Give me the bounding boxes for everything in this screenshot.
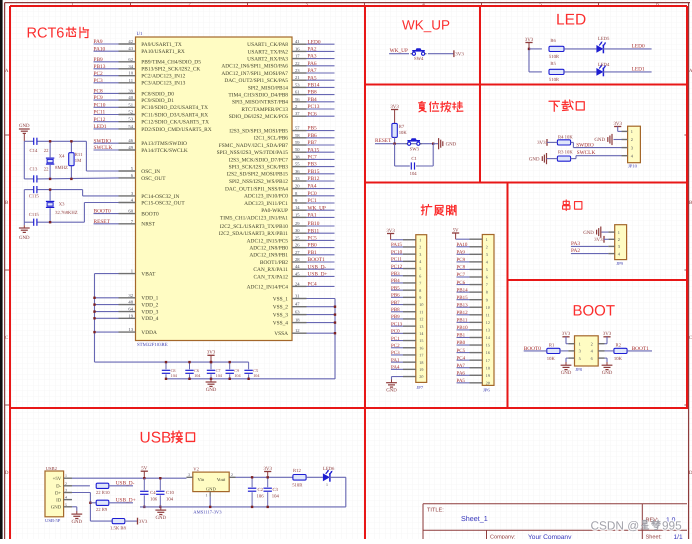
svg-text:PB11: PB11 [457, 318, 468, 324]
pin 13 VDDA left [119, 327, 157, 336]
svg-text:44: 44 [295, 264, 300, 269]
svg-text:57: 57 [295, 126, 300, 131]
svg-text:PC5: PC5 [457, 348, 466, 354]
wire osc_in jog [85, 141, 87, 171]
wire R5 to LED4 [564, 71, 596, 73]
svg-text:PC12: PC12 [391, 264, 403, 270]
svg-text:3V3: 3V3 [139, 519, 148, 525]
svg-text:61: 61 [295, 90, 300, 95]
svg-text:STM32F103RE: STM32F103RE [137, 342, 168, 348]
net label RESET [375, 138, 395, 144]
watermark CSDN [591, 518, 683, 532]
svg-text:PC7: PC7 [457, 272, 466, 278]
svg-text:SW3: SW3 [410, 147, 420, 153]
svg-text:PA14/JTCK/SWCLK: PA14/JTCK/SWCLK [141, 148, 188, 154]
title block REV cell [646, 517, 676, 524]
svg-text:104: 104 [253, 373, 260, 378]
svg-text:CSDN @: CSDN @ [591, 518, 640, 532]
svg-text:27: 27 [295, 250, 300, 255]
pin 16 USART2_TX/PA2 right [247, 46, 334, 55]
section title expansion pins [421, 204, 432, 215]
svg-text:PC14-OSC32_IN: PC14-OSC32_IN [141, 194, 179, 200]
svg-text:PD2/SDIO_CMD/USART5_RX: PD2/SDIO_CMD/USART5_RX [141, 127, 211, 133]
pin 53 PC12/SDIO_CK/USART5_TX left [94, 117, 210, 126]
svg-text:OSC_OUT: OSC_OUT [141, 176, 166, 182]
wire to R9 [90, 502, 96, 504]
svg-text:C14: C14 [30, 148, 38, 154]
svg-text:37: 37 [295, 111, 300, 116]
capacitor C5 104 [244, 362, 260, 380]
svg-text:R12: R12 [293, 468, 301, 474]
svg-text:PA0-WKUP: PA0-WKUP [261, 208, 288, 214]
svg-text:30: 30 [295, 228, 300, 233]
ground symbol usb rail [155, 507, 166, 521]
JP7 pin 13 [391, 321, 423, 328]
JP7 pin 5 [391, 264, 421, 271]
svg-text:3V3: 3V3 [537, 140, 546, 146]
svg-text:58: 58 [295, 133, 300, 138]
svg-text:X4: X4 [59, 154, 65, 160]
svg-text:JP9: JP9 [616, 261, 623, 266]
svg-text:DAC_OUT1/SPI1_NSS/PA4: DAC_OUT1/SPI1_NSS/PA4 [225, 187, 288, 193]
svg-text:PC1: PC1 [391, 336, 400, 342]
svg-text:PC10: PC10 [391, 249, 403, 255]
svg-text:10K: 10K [399, 130, 408, 136]
pin 3 PC14-OSC32_IN left [119, 191, 180, 200]
svg-text:R1: R1 [549, 343, 555, 349]
svg-text:6: 6 [419, 273, 421, 278]
svg-text:PB7: PB7 [391, 300, 400, 306]
svg-text:20: 20 [295, 184, 300, 189]
svg-text:18: 18 [419, 360, 423, 365]
resistor R9 22 [96, 500, 109, 513]
net label PA2 and wire [571, 248, 609, 254]
svg-text:BOOT1: BOOT1 [308, 257, 326, 263]
svg-text:31: 31 [295, 294, 300, 299]
section title download port [549, 101, 560, 111]
pin 6 OSC_OUT left [119, 173, 167, 182]
ground symbol bottom of crystal X3 [19, 225, 30, 241]
net label USB_D- and wire [109, 481, 135, 487]
JP6 pin 18 [457, 363, 490, 370]
JP6 pin 19 [457, 370, 490, 377]
JP7 pin 14 [391, 329, 423, 336]
svg-text:106: 106 [257, 494, 265, 500]
svg-text:Your Company: Your Company [528, 534, 572, 539]
JP6 pin 1 [470, 237, 488, 242]
svg-text:17: 17 [295, 54, 300, 59]
pin 7 NRST left [94, 219, 156, 228]
svg-text:GND: GND [155, 515, 166, 521]
svg-text:1: 1 [486, 237, 488, 242]
svg-text:JP8: JP8 [575, 367, 582, 372]
resistor R10 22 [96, 483, 110, 496]
op IC U1 STM32F103RE body [136, 37, 293, 341]
red section divider lines [10, 5, 687, 7]
pin 22 ADC12_IN6/SPI1_MISO/PA6 right [221, 61, 334, 70]
svg-text:104: 104 [234, 373, 241, 378]
svg-text:SW4: SW4 [414, 56, 424, 62]
USB2 pin 5 GND [51, 503, 72, 511]
pin 58 I2C1_SCL/PB6 right [254, 133, 335, 142]
JP7 pin 8 [391, 285, 421, 292]
power symbol 3V3 jp7 [386, 228, 403, 240]
ground symbol jp7 pin20 [386, 377, 403, 394]
switch SW3 [406, 138, 422, 152]
svg-text:PA5: PA5 [308, 75, 317, 81]
svg-text:7: 7 [486, 282, 488, 287]
svg-text:LED4: LED4 [598, 62, 610, 68]
pin 2 RTC/TAMPER/PC13 right [241, 104, 334, 113]
connector JP8 [568, 336, 604, 372]
svg-text:GND: GND [206, 387, 217, 393]
svg-text:LED0: LED0 [632, 43, 645, 49]
svg-text:15: 15 [295, 212, 300, 217]
ground symbol boot left [561, 358, 572, 376]
svg-text:PC3: PC3 [391, 350, 400, 356]
svg-text:USB2: USB2 [46, 466, 58, 471]
JP6 pin 16 [457, 348, 490, 355]
capacitor C2 106 [248, 476, 264, 508]
svg-text:ADC12_IN9/PB1: ADC12_IN9/PB1 [249, 253, 288, 259]
svg-text:D+: D+ [55, 490, 61, 496]
svg-text:LED5: LED5 [598, 36, 610, 42]
svg-text:PC7: PC7 [308, 155, 318, 161]
svg-text:8: 8 [419, 288, 421, 293]
svg-text:GND: GND [594, 137, 605, 143]
pin 54 PD2/SDIO_CMD/USART5_RX left [94, 124, 212, 133]
svg-text:USART2_TX/PA2: USART2_TX/PA2 [247, 49, 288, 55]
svg-text:RTC/TAMPER/PC13: RTC/TAMPER/PC13 [241, 107, 288, 113]
ground symbol below caps [210, 379, 212, 382]
wire to GND reset [433, 143, 438, 145]
wire VBAT row [95, 273, 119, 275]
svg-text:104: 104 [216, 373, 223, 378]
wire crystal1 top row [24, 140, 33, 142]
svg-text:C115: C115 [29, 212, 40, 218]
power symbol 5V usb [141, 466, 148, 480]
power symbol 3V3 jp9 pin2 [594, 236, 608, 243]
JP7 pin 2 [391, 242, 421, 249]
svg-text:USB_D+: USB_D+ [116, 498, 136, 504]
svg-text:104: 104 [171, 373, 178, 378]
svg-text:VSSA: VSSA [274, 331, 288, 337]
svg-text:PB15: PB15 [457, 295, 469, 301]
ground symbol boot right [602, 358, 613, 376]
JP7 pin 10 [391, 300, 423, 307]
svg-text:ADC12_IN6/SPI1_MISO/PA6: ADC12_IN6/SPI1_MISO/PA6 [221, 64, 288, 70]
wire crystal2 left vertical [23, 190, 25, 226]
svg-text:PB4: PB4 [391, 278, 400, 284]
pin 38 I2S3_MCK/SDIO_D7/PC7 right [229, 154, 335, 163]
JP7 pin 11 [391, 307, 423, 314]
svg-text:7: 7 [419, 281, 421, 286]
svg-text:Sheet_1: Sheet_1 [461, 514, 488, 523]
svg-text:ADC123_IN11/PC1: ADC123_IN11/PC1 [244, 201, 288, 207]
svg-text:62: 62 [128, 57, 133, 62]
svg-text:SWCLK: SWCLK [577, 150, 596, 156]
svg-text:ADC12_IN15/PC5: ADC12_IN15/PC5 [247, 238, 289, 244]
resistor R4 10K [557, 134, 573, 147]
svg-text:17: 17 [419, 353, 423, 358]
svg-text:PA10/USART1_RX: PA10/USART1_RX [141, 49, 185, 55]
svg-text:PC2: PC2 [391, 343, 400, 349]
svg-text:2: 2 [231, 473, 233, 477]
wire VDD row [95, 317, 119, 319]
svg-text:PC4: PC4 [457, 355, 466, 361]
connector JP9 [608, 225, 626, 266]
svg-text:I2C1_SCL/PB6: I2C1_SCL/PB6 [254, 136, 288, 142]
svg-text:SPI2_NSS/I2S2_WS/PB12: SPI2_NSS/I2S2_WS/PB12 [229, 179, 288, 185]
pin 21 DAC_OUT2/SPI1_SCK/PA5 right [224, 75, 334, 84]
svg-text:1M: 1M [75, 158, 82, 164]
svg-text:10K: 10K [547, 356, 556, 362]
wire D+ jog down [72, 493, 92, 522]
svg-text:3: 3 [618, 244, 620, 249]
svg-text:2: 2 [591, 341, 593, 346]
svg-text:TIM4_CH3/SDIO_D4/PB8: TIM4_CH3/SDIO_D4/PB8 [228, 93, 288, 99]
pin 36 I2S2_SD/SPI2_MOSI/PB15 right [227, 169, 335, 178]
svg-text:995: 995 [662, 518, 682, 532]
pin 31 VSS_1 right [273, 294, 335, 303]
svg-text:2: 2 [65, 482, 67, 486]
resistor R8 1.5K [110, 519, 127, 532]
svg-text:A: A [5, 68, 9, 74]
svg-text:PB14: PB14 [457, 287, 469, 293]
svg-text:15: 15 [486, 343, 490, 348]
svg-text:PC8/SDIO_D0: PC8/SDIO_D0 [141, 91, 174, 97]
ground symbol jp9 pin1 [583, 227, 608, 238]
resistor R12 510R [292, 468, 306, 489]
svg-text:PA10: PA10 [94, 46, 106, 52]
svg-text:60: 60 [128, 209, 133, 214]
net label SWDIO and wire [573, 143, 621, 149]
svg-text:I2C2_SCL/USART3_TX/PB10: I2C2_SCL/USART3_TX/PB10 [220, 224, 289, 230]
svg-text:PA9/USART1_TX: PA9/USART1_TX [141, 42, 182, 48]
svg-text:LED1: LED1 [94, 124, 107, 130]
svg-text:4: 4 [419, 259, 421, 264]
wire R7 to node [394, 137, 396, 143]
capacitor C14 22 [30, 138, 50, 154]
svg-text:38: 38 [295, 154, 300, 159]
pin 37 SDIO_D6/I2S2_MCK/PC6 right [229, 111, 335, 120]
JP7 pin 19 [391, 365, 423, 372]
pin 18 VSS_4 right [273, 318, 336, 327]
title block Sheet cell [646, 534, 683, 541]
svg-text:1: 1 [419, 237, 421, 242]
svg-text:2: 2 [631, 137, 633, 142]
regulator V2 AMS1117-3V3 [187, 466, 236, 514]
USB2 pin 3 D+ [55, 489, 72, 497]
pin 29 I2C2_SCL/USART3_TX/PB10 right [220, 221, 335, 230]
svg-text:41: 41 [295, 39, 300, 44]
capacitor C7 104 [207, 361, 223, 380]
pin 45 CAN_TX/PA12 right [253, 271, 334, 280]
svg-text:R3 10K: R3 10K [558, 150, 573, 156]
JP6 pin 10 [457, 302, 490, 309]
JP6 pin 2 [457, 242, 488, 249]
ground rail horizontal [166, 378, 335, 380]
svg-text:PA1: PA1 [308, 213, 317, 219]
svg-text:ID: ID [56, 497, 62, 503]
pin 63 VSS_3 right [273, 310, 336, 319]
section title reset button [419, 101, 427, 111]
pin 51 PC10/SDIO_D2/USART4_TX left [94, 102, 209, 111]
wire reset node row [395, 143, 434, 145]
JP7 pin 1 [403, 237, 421, 242]
svg-text:29: 29 [295, 221, 300, 226]
svg-text:D-: D- [56, 484, 61, 490]
JP6 pin 7 [457, 280, 488, 287]
VSS bus wire right [334, 299, 336, 380]
svg-text:Vout: Vout [217, 477, 226, 482]
svg-text:4: 4 [486, 259, 488, 264]
wire R12 to LED6 [306, 476, 323, 478]
wire led branch2 left [529, 71, 542, 73]
capacitor C9 104 [226, 361, 242, 380]
svg-text:USB_D-: USB_D- [308, 264, 327, 270]
wire Vout row [236, 476, 294, 478]
wire SW4 to 3V3 [428, 53, 454, 55]
svg-text:SDIO_D6/I2S2_MCK/PC6: SDIO_D6/I2S2_MCK/PC6 [229, 114, 289, 120]
pin 19 VDD_4 left [119, 313, 159, 322]
JP6 pin 15 [457, 340, 490, 347]
JP6 pin 17 [457, 355, 490, 362]
svg-text:USB_D+: USB_D+ [308, 272, 328, 278]
pin 62 PB9/TIM4_CH4/SDIO_D5 left [94, 57, 202, 66]
svg-text:LED1: LED1 [632, 66, 645, 72]
svg-text:PC10/SDIO_D2/USART4_TX: PC10/SDIO_D2/USART4_TX [141, 105, 208, 111]
svg-text:3V3: 3V3 [455, 52, 464, 58]
svg-text:VSS_4: VSS_4 [273, 321, 289, 327]
wire VDD row [95, 297, 119, 299]
svg-text:12: 12 [486, 320, 490, 325]
svg-text:BOOT0: BOOT0 [94, 209, 112, 215]
svg-text:R5: R5 [550, 61, 556, 67]
svg-text:3: 3 [631, 145, 633, 150]
svg-text:12: 12 [419, 317, 423, 322]
resistor R3 10K [557, 150, 576, 162]
wire V2 GND stem [209, 497, 211, 508]
power rail 3V3 horizontal [95, 361, 249, 363]
svg-text:PC11/SDIO_D3/USART4_RX: PC11/SDIO_D3/USART4_RX [141, 112, 208, 118]
pin 24 ADC12_IN14/PC4 right [247, 281, 335, 290]
svg-text:PA6: PA6 [457, 370, 466, 376]
resistor R1 10K [547, 343, 568, 362]
capacitor C4 106 [140, 478, 158, 508]
svg-text:WK_UP: WK_UP [402, 18, 450, 33]
section title serial port [563, 200, 570, 211]
svg-text:R11: R11 [75, 152, 83, 158]
svg-text:PC2/ADC123_IN12: PC2/ADC123_IN12 [141, 74, 185, 80]
svg-text:WK_UP: WK_UP [390, 48, 408, 54]
svg-text:C2: C2 [258, 487, 264, 493]
capacitor C3 104 [264, 476, 280, 508]
svg-text:SPI2_MISO/PB14: SPI2_MISO/PB14 [248, 85, 288, 91]
JP7 pin 9 [391, 293, 421, 300]
connector JP6 [482, 235, 494, 393]
svg-text:PC15-OSC32_OUT: PC15-OSC32_OUT [141, 200, 185, 206]
svg-text:RCT6: RCT6 [27, 26, 65, 42]
JP7 pin 17 [391, 350, 423, 357]
svg-text:PC13: PC13 [308, 104, 320, 110]
svg-text:VSS_3: VSS_3 [273, 313, 289, 319]
svg-text:I2S3_SD/SPI3_MOSI/PB5: I2S3_SD/SPI3_MOSI/PB5 [229, 129, 288, 135]
net label BOOT0 and wire [524, 346, 547, 352]
svg-text:3: 3 [188, 473, 190, 477]
diode LED6 [323, 466, 335, 487]
pin 39 PC8/SDIO_D0 left [94, 88, 175, 97]
svg-text:VDD_3: VDD_3 [141, 310, 158, 316]
JP6 pin 13 [457, 325, 490, 332]
pin 40 PC9/SDIO_D1 left [94, 95, 175, 104]
svg-text:JP7: JP7 [417, 385, 424, 390]
svg-text:9: 9 [419, 295, 421, 300]
svg-text:40: 40 [128, 95, 133, 100]
svg-text:GND: GND [446, 141, 457, 147]
svg-text:4: 4 [65, 496, 67, 500]
svg-text:NRST: NRST [141, 222, 155, 228]
wire LED6 loop return [329, 477, 346, 507]
svg-text:PB5: PB5 [391, 285, 400, 291]
svg-text:1: 1 [579, 341, 581, 346]
svg-text:PB12: PB12 [308, 176, 320, 182]
svg-text:PC11: PC11 [391, 257, 402, 263]
svg-text:32.768KHZ: 32.768KHZ [55, 210, 78, 216]
svg-text:PA3: PA3 [308, 54, 317, 60]
svg-text:46: 46 [128, 138, 133, 143]
JP6 pin 20 [457, 378, 490, 385]
svg-text:1/1: 1/1 [674, 534, 683, 539]
svg-text:BOOT0: BOOT0 [141, 212, 159, 218]
svg-text:PC3: PC3 [94, 78, 104, 84]
svg-text:9: 9 [486, 297, 488, 302]
pin 8 ADC123_IN10/PC0 right [244, 191, 335, 200]
connector USB2 body [45, 466, 64, 523]
svg-text:22 R10: 22 R10 [96, 490, 110, 496]
svg-text:PA7: PA7 [308, 68, 317, 74]
svg-text:510R: 510R [549, 54, 560, 60]
pin 47 VSS_2 right [273, 302, 336, 311]
svg-text:1: 1 [618, 230, 620, 235]
wire crystal2 top row [24, 189, 33, 191]
svg-text:23: 23 [295, 68, 300, 73]
svg-text:VSS_1: VSS_1 [273, 296, 289, 302]
svg-text:PB10: PB10 [308, 221, 320, 227]
power symbol 3V3 right [453, 50, 455, 57]
wire led branch1 left [529, 48, 542, 50]
pin 23 ADC12_IN7/SPI1_MOSI/PA7 right [221, 68, 334, 77]
pin 28 BOOT1/PB2 right [260, 257, 335, 266]
svg-text:R7: R7 [399, 124, 405, 130]
svg-text:PB9: PB9 [94, 57, 104, 63]
svg-text:PC8: PC8 [94, 89, 104, 95]
svg-text:PC2: PC2 [94, 71, 104, 77]
svg-text:VDD_4: VDD_4 [141, 316, 158, 322]
svg-text:PB3: PB3 [391, 271, 400, 277]
svg-text:PB8: PB8 [391, 307, 400, 313]
svg-text:16: 16 [419, 345, 423, 350]
svg-text:3: 3 [419, 252, 421, 257]
svg-text:USB-5P: USB-5P [45, 518, 61, 523]
pin 57 I2S3_SD/SPI3_MOSI/PB5 right [229, 126, 334, 135]
svg-text:11: 11 [129, 78, 134, 83]
svg-text:X3: X3 [59, 202, 65, 208]
svg-text:3V3: 3V3 [594, 237, 603, 243]
pin 11 PC3/ADC123_IN13 left [94, 78, 186, 87]
svg-text:5: 5 [579, 356, 581, 361]
svg-text:14: 14 [419, 331, 423, 336]
